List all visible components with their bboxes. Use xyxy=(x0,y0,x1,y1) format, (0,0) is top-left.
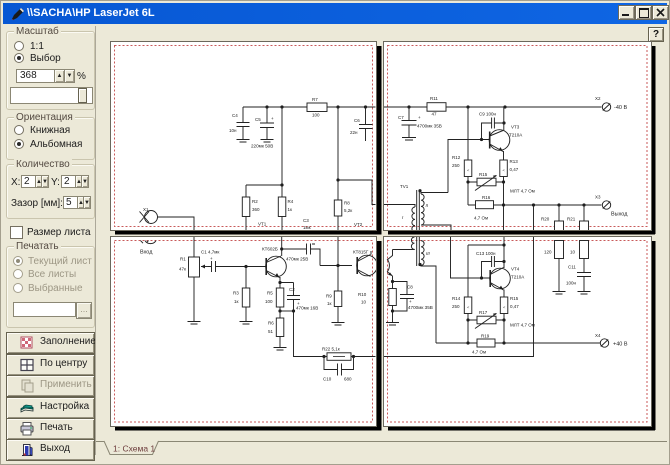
resistor R15b xyxy=(500,296,519,314)
connector X4 xyxy=(595,333,628,348)
node dot xyxy=(336,178,339,181)
page 2 shadow xyxy=(651,46,656,234)
ground xyxy=(332,323,345,326)
page 4 shadow xyxy=(651,241,656,430)
potentiometer R1 xyxy=(179,257,208,322)
margin page 2 xyxy=(388,46,648,227)
wire X1 to splitter xyxy=(158,217,195,231)
groupbox Ориентация xyxy=(6,117,95,160)
wire R3 drop xyxy=(245,267,247,289)
winding II xyxy=(418,189,451,230)
capacitor C13 xyxy=(476,251,504,278)
wire VT2 base xyxy=(320,265,352,267)
wire trimmer row xyxy=(468,314,504,344)
connector X2 xyxy=(595,96,627,111)
node dots xyxy=(407,105,506,108)
resistor R8 xyxy=(334,200,352,231)
groupbox Количество xyxy=(6,164,95,219)
wire feedback drop xyxy=(533,205,535,231)
resistor R2 xyxy=(242,197,260,231)
capacitor C4 xyxy=(229,107,250,139)
ground xyxy=(402,138,416,141)
resistor R11 xyxy=(427,96,446,117)
capacitor C3 xyxy=(282,244,320,266)
node dots on rail xyxy=(265,105,367,108)
wire input drop xyxy=(193,237,195,257)
transistor VT2 (clipped) xyxy=(353,250,377,277)
button По центру xyxy=(6,354,95,376)
trimmer R15 xyxy=(475,172,497,191)
node dot xyxy=(280,247,283,250)
resistor R19 xyxy=(472,334,495,355)
resistor R13 xyxy=(500,159,519,177)
help button xyxy=(648,27,664,42)
window title bar xyxy=(3,3,667,24)
ground xyxy=(578,292,591,295)
wire emitter junction xyxy=(280,310,294,312)
wire VT1 collector up (split) xyxy=(281,237,283,249)
node dot xyxy=(391,309,394,312)
winding III xyxy=(418,241,436,343)
page 1 (top-left sheet) xyxy=(111,42,377,231)
capacitor C1 xyxy=(201,250,266,273)
wire base of VT3 xyxy=(448,140,489,193)
wire VT4 base feed xyxy=(451,237,490,278)
connector X1 lower arc (split) xyxy=(141,241,157,244)
wire R4 branch xyxy=(246,107,282,197)
left panel : groupbox Масштаб xyxy=(6,31,95,110)
radio Текущий лист (selected, disabled) xyxy=(13,256,23,266)
resistor R5 xyxy=(265,288,284,307)
connector X3 xyxy=(595,195,628,218)
button Настройка xyxy=(6,397,95,419)
radio Все листы (disabled) xyxy=(13,269,23,279)
capacitor C11 xyxy=(566,265,591,292)
margin page 4 xyxy=(388,241,648,423)
resistor R6 xyxy=(268,307,284,347)
resistor R20 lower (split) xyxy=(544,241,564,292)
capacitor C6 xyxy=(350,107,373,141)
transistor VT3 xyxy=(489,107,522,160)
resistor R10 (split) xyxy=(389,282,397,323)
wire feedback xyxy=(294,311,376,357)
ground xyxy=(261,140,274,143)
capacitor C5 xyxy=(251,107,274,149)
checkbox Размер листа xyxy=(10,226,23,239)
wire output rail xyxy=(468,182,602,231)
winding I xyxy=(384,205,415,232)
resistor R16 xyxy=(474,195,494,221)
ground xyxy=(274,348,287,351)
preview panel divider xyxy=(95,26,96,455)
resistor R12 xyxy=(452,107,472,177)
ground xyxy=(553,292,566,295)
wire trimmer row xyxy=(468,177,504,206)
node dot xyxy=(480,276,483,279)
transistor VT4 xyxy=(490,262,525,298)
ground xyxy=(188,322,201,325)
capacitor C7 xyxy=(398,107,442,137)
maximize button xyxy=(635,5,652,20)
ground xyxy=(237,140,250,143)
transistor VT1 xyxy=(262,247,286,289)
capacitor C9 xyxy=(479,112,504,140)
button Выход xyxy=(6,439,95,461)
capacitor C2 xyxy=(278,281,318,311)
close button xyxy=(652,5,669,20)
resistor R21 lower (split) xyxy=(570,241,589,273)
button Заполнение xyxy=(6,332,95,354)
ground xyxy=(240,322,253,325)
margin page 1 xyxy=(115,46,373,227)
slider xyxy=(10,87,93,104)
page 3 shadow xyxy=(376,241,382,430)
resistor R4 xyxy=(278,197,293,231)
wire base branch VT2 xyxy=(337,107,339,200)
radio 1:1 xyxy=(14,41,24,51)
wire base branch from page 1 xyxy=(337,237,339,291)
connector X1 xyxy=(140,207,158,224)
capacitor C8 xyxy=(393,282,433,312)
resistor R3 xyxy=(233,288,250,321)
radio Выбор (selected) xyxy=(14,53,24,63)
resistor R20 (split) xyxy=(541,205,564,231)
resistor R22 xyxy=(322,347,354,361)
tab bar line xyxy=(96,441,667,443)
wire +40V rail xyxy=(436,320,601,343)
capacitor C10 xyxy=(323,357,354,382)
button Применить (disabled) xyxy=(6,375,95,397)
node dot xyxy=(280,183,283,186)
node dot xyxy=(244,265,247,268)
wire supply rail xyxy=(384,106,602,108)
transformer core (split) xyxy=(417,237,420,266)
winding I lower (split) xyxy=(393,237,415,250)
wire supply rail -40V xyxy=(243,106,376,108)
minimize button xyxy=(618,5,635,20)
resistor R9 xyxy=(326,291,342,322)
node dot xyxy=(502,121,505,124)
node dot xyxy=(336,264,339,267)
page 4 (bottom-right sheet) xyxy=(384,237,652,427)
wire collector rail xyxy=(468,237,504,268)
wire feedback long xyxy=(384,237,534,357)
radio Выбранные (disabled) xyxy=(13,283,23,293)
trimmer R17 xyxy=(475,310,497,329)
groupbox Печатать xyxy=(6,246,95,328)
page 1 shadow xyxy=(376,46,382,234)
wire to transformer xyxy=(338,180,376,205)
resistor R14 xyxy=(452,245,472,314)
transformer TV1 core xyxy=(400,184,419,231)
button Печать xyxy=(6,418,95,440)
node dot emitter xyxy=(391,280,394,283)
resistor R21 (split) xyxy=(567,205,589,231)
transistor VT2 right part (split) xyxy=(387,250,393,282)
page 2 (top-right sheet) xyxy=(384,42,652,231)
radio Книжная xyxy=(14,125,24,135)
tab 1: Схема 1 xyxy=(104,441,159,455)
node dot xyxy=(480,138,483,141)
spin edit 368 xyxy=(16,69,55,83)
radio Альбомная (selected) xyxy=(14,139,24,149)
resistor R7 xyxy=(307,97,327,118)
page 3 (bottom-left sheet) xyxy=(111,237,377,427)
margin page 3 xyxy=(115,241,373,423)
ground xyxy=(386,323,399,326)
